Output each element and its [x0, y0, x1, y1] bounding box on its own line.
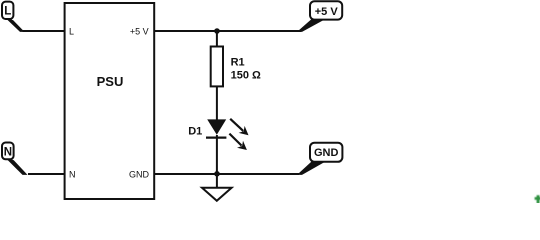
- pin label L: [69, 27, 74, 37]
- LED light arrow 2: [229, 134, 247, 150]
- svg-text:N: N: [4, 146, 12, 158]
- pin label N: [69, 170, 76, 180]
- wire D1 to GND rail: [216, 135, 218, 174]
- LED light arrow 1: [230, 119, 248, 135]
- wire N to PSU: [28, 173, 65, 175]
- svg-text:PSU: PSU: [97, 74, 124, 89]
- junction top node: [214, 28, 220, 34]
- PSU label: [97, 74, 124, 89]
- svg-text:+5 V: +5 V: [315, 6, 339, 18]
- label R1: [231, 57, 245, 69]
- svg-text:GND: GND: [129, 169, 150, 179]
- label D1: [188, 126, 202, 138]
- net tag GND: [297, 143, 342, 175]
- net tag N: [2, 143, 28, 175]
- svg-text:D1: D1: [188, 126, 202, 138]
- wire GND rail: [154, 173, 299, 175]
- wire junction to R1: [216, 31, 218, 47]
- net tag L: [2, 2, 25, 32]
- ground symbol: [202, 188, 232, 201]
- svg-text:L: L: [4, 6, 11, 18]
- wire L to PSU: [23, 30, 66, 32]
- svg-text:R1: R1: [231, 57, 245, 69]
- value 150 ohm: [231, 70, 261, 82]
- resistor R1: [211, 47, 223, 87]
- junction bottom node: [214, 171, 220, 177]
- pin label +5 V: [130, 27, 149, 37]
- watermark: [535, 195, 540, 204]
- net tag +5 V: [297, 1, 342, 32]
- svg-text:150 Ω: 150 Ω: [231, 70, 261, 82]
- svg-text:GND: GND: [314, 147, 339, 159]
- wire +5V rail: [154, 30, 301, 32]
- pin label GND: [129, 169, 150, 179]
- svg-text:+5 V: +5 V: [130, 27, 149, 37]
- LED D1: [206, 119, 226, 137]
- wire junction to ground: [216, 174, 218, 188]
- wire R1 to D1: [216, 86, 218, 120]
- svg-text:L: L: [69, 27, 74, 37]
- svg-text:N: N: [69, 170, 76, 180]
- PSU box: [65, 3, 155, 199]
